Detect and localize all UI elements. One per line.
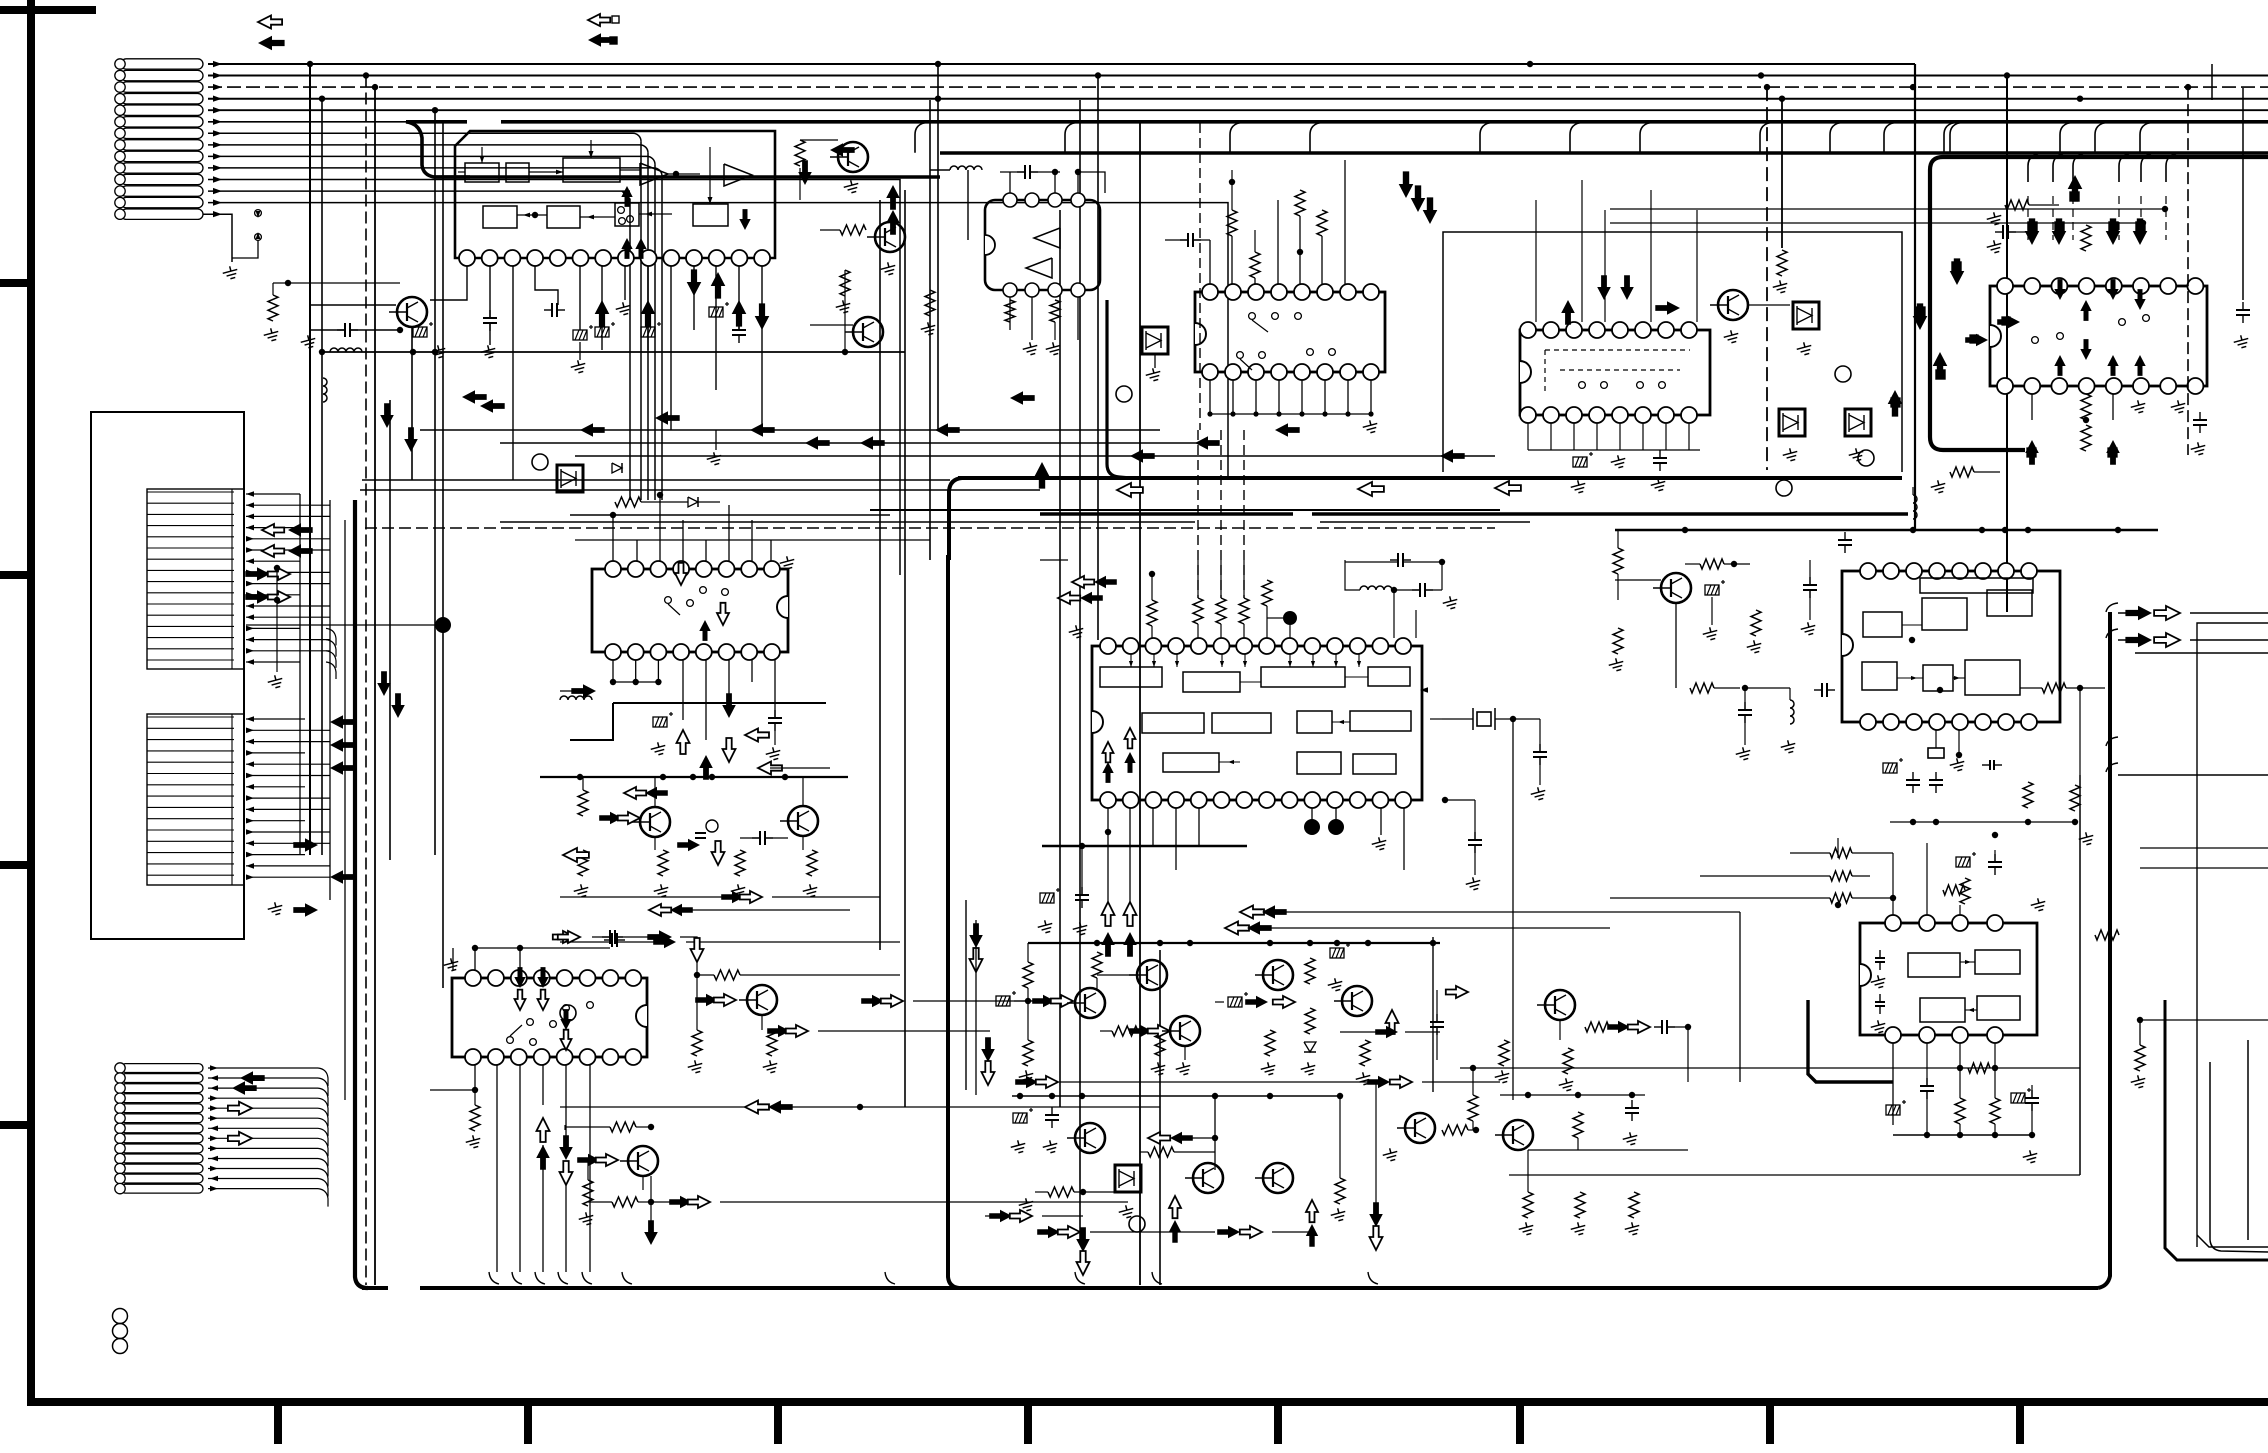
wire: [208, 155, 647, 157]
ground: [572, 883, 590, 899]
arrowhead: [1288, 661, 1292, 667]
arrowhead: [587, 215, 594, 220]
ground: [1607, 657, 1625, 673]
wire: [670, 266, 672, 430]
via: [706, 820, 718, 832]
signal arrow: [293, 903, 318, 917]
wire: [2079, 775, 2081, 1175]
junction: [577, 774, 583, 780]
wire: [1460, 1067, 2080, 1069]
wire: [2052, 196, 2054, 240]
wire: [1151, 626, 1153, 638]
bus curl: [1152, 1272, 1162, 1284]
junction: [2029, 1132, 2035, 1138]
wire: [246, 752, 305, 754]
cap C: [337, 329, 345, 331]
open arrow: [262, 524, 284, 536]
arrowhead: [246, 841, 254, 847]
diode D: [612, 463, 622, 473]
junction: [842, 349, 848, 355]
ecap: [1330, 943, 1350, 958]
wire: [1550, 423, 1552, 450]
junction: [1890, 895, 1896, 901]
wire: [560, 1106, 1160, 1108]
wire: [208, 1067, 318, 1069]
res R: [1943, 885, 1965, 895]
bus hook: [915, 123, 925, 153]
bus curl: [558, 1272, 568, 1284]
res R: [714, 970, 740, 980]
bus mid 522a: [500, 521, 1195, 523]
wire: [2139, 1020, 2141, 1045]
signal arrow: [1094, 576, 1117, 588]
tag sq: [2002, 317, 2010, 325]
U2 notch: [985, 235, 995, 255]
arrowhead: [210, 1085, 218, 1091]
wire: [1077, 172, 1079, 193]
wire: [1474, 800, 1476, 840]
blob: [1283, 611, 1297, 625]
ground: [1044, 341, 1062, 357]
res R: [1092, 952, 1102, 978]
wire: [570, 703, 613, 740]
pin row: [147, 840, 234, 842]
bus curve thick: [406, 122, 470, 177]
junction: [2077, 96, 2083, 102]
U12 block: [1261, 667, 1345, 687]
sheet corner tick top-left: [0, 6, 96, 14]
wire: [1054, 172, 1056, 193]
inner pin box2: [147, 714, 244, 885]
junction: [472, 945, 478, 951]
wire: [647, 266, 649, 350]
ecap: [413, 322, 433, 337]
pin arrowhead: [213, 188, 222, 194]
wire drop dashed: [365, 76, 367, 1286]
signal arrow: [1411, 185, 1426, 212]
arrowhead: [210, 1166, 218, 1172]
transistor Q4: [853, 317, 883, 347]
junction: [1212, 1093, 1218, 1099]
bus hook: [1944, 123, 1954, 153]
wire: [1912, 487, 1914, 495]
wire: [985, 1215, 1000, 1217]
wire bus6 thick2: [406, 120, 467, 124]
wire: [1220, 560, 1222, 598]
wire: [818, 1030, 990, 1032]
wire drop: [434, 110, 436, 855]
cap C: [1051, 1107, 1053, 1115]
tag sq: [1970, 335, 1978, 343]
wire: [208, 1127, 318, 1129]
open arrow: [1386, 1010, 1399, 1034]
small cap: [1982, 764, 1990, 766]
transistor Q8: [747, 985, 777, 1015]
wire: [2140, 1019, 2268, 1021]
wire: [1579, 1150, 1581, 1192]
wire: [697, 999, 706, 1001]
U14 block: [1863, 612, 1902, 637]
junction: [372, 84, 378, 90]
open arrow: [1370, 1226, 1383, 1250]
cap C: [1390, 559, 1398, 561]
wire: [452, 948, 454, 970]
ground: [686, 1059, 704, 1075]
signal arrow: [647, 930, 672, 944]
wire: [299, 494, 301, 855]
wire: [1852, 897, 1893, 899]
res R: [612, 1197, 638, 1207]
res R: [795, 140, 805, 166]
wire: [1074, 1191, 1115, 1193]
ic U1 pin: [686, 250, 702, 266]
border tick bottom: [774, 1402, 782, 1444]
open arrow: [786, 1025, 808, 1037]
row curl: [326, 640, 336, 657]
wire: [1403, 561, 1442, 563]
signal arrow: [1245, 996, 1268, 1008]
res R: [2135, 1045, 2145, 1071]
bus curl: [1075, 1272, 1085, 1284]
ground: [919, 321, 937, 337]
open arrow: [1169, 1196, 1181, 1218]
wire: [2031, 1085, 2033, 1098]
wire: [1436, 990, 1438, 1022]
cap C: [2199, 412, 2201, 420]
U5 switch: [1601, 382, 1608, 389]
wire: [696, 975, 698, 1030]
signal arrow: [1010, 391, 1035, 405]
wire: [1220, 624, 1222, 638]
wire: [1790, 852, 1830, 854]
U1 wire: [458, 171, 465, 173]
thick wire: [1808, 1000, 1893, 1082]
open arrow: [553, 931, 575, 943]
U12 wire: [1244, 654, 1246, 667]
signal arrow: [2133, 218, 2148, 245]
bus hook2: [2073, 154, 2083, 182]
pin row: [147, 716, 234, 718]
wire: [1687, 1027, 1689, 1050]
ecap: [1886, 1100, 1906, 1115]
res R: [1575, 1192, 1585, 1218]
open arrow: [1240, 906, 1264, 919]
wire dashed: [1243, 430, 1245, 598]
U12 wire: [1289, 654, 1291, 667]
transistor Q14: [1342, 986, 1372, 1016]
wire: [246, 627, 300, 629]
U1 wire: [481, 147, 483, 163]
wire spine: [937, 64, 939, 430]
signal arrow: [2052, 218, 2067, 245]
wire: [560, 941, 612, 943]
signal arrow: [330, 738, 355, 752]
res R: [268, 295, 278, 321]
res R: [610, 1122, 636, 1132]
ground: [1722, 329, 1740, 345]
wire spine dashed: [1766, 87, 1768, 470]
arrowhead: [1311, 661, 1315, 667]
U1 switch box: [615, 203, 639, 226]
signal arrow: [1170, 1132, 1193, 1144]
wire: [1974, 471, 2000, 473]
U1 inner block: [483, 206, 517, 228]
arrowhead: [246, 852, 254, 858]
via: [113, 1339, 128, 1354]
open arrow top-mid: [588, 14, 610, 26]
res R: [840, 270, 850, 296]
coil: [330, 348, 362, 352]
wire: [1014, 1000, 1042, 1002]
curve: [318, 1108, 328, 1126]
pin row: [147, 761, 234, 763]
wire: [1667, 1026, 1688, 1028]
curve: [2106, 737, 2118, 746]
wire bus6 thick3: [501, 120, 2268, 124]
junction: [432, 107, 438, 113]
signal arrow: [721, 891, 744, 903]
U1 solid arrow: [621, 238, 632, 259]
wire: [802, 836, 804, 850]
signal arrow: [404, 427, 418, 452]
ic U10: [592, 569, 788, 652]
res R: [2081, 425, 2091, 451]
pin row: [147, 558, 234, 560]
res R: [583, 1180, 593, 1206]
cap C: [489, 310, 491, 318]
wire: [2029, 204, 2059, 206]
wire: [246, 605, 330, 607]
cap C: [1081, 887, 1083, 895]
junction: [1957, 1132, 1963, 1138]
border tick bottom: [1274, 1402, 1282, 1444]
wire: [1278, 380, 1280, 414]
signal arrow: [1076, 1227, 1090, 1252]
wire: [2190, 612, 2268, 614]
wire: [1078, 172, 1105, 193]
ground: [2189, 441, 2207, 457]
pin arrowhead: [213, 142, 222, 148]
signal arrow: [595, 300, 610, 327]
res R: [1960, 878, 1970, 904]
wire: [1685, 563, 1700, 565]
pin arrowhead: [213, 61, 222, 67]
junction: [1187, 940, 1193, 946]
bus mid thick2: [958, 476, 1902, 480]
arrowhead: [256, 232, 261, 239]
wire: [1277, 200, 1279, 284]
wire: [682, 660, 684, 720]
res R: [1023, 1040, 1033, 1066]
wire: [2118, 639, 2140, 641]
wire: [1892, 1043, 1894, 1125]
arrowhead: [246, 536, 254, 542]
junction: [1910, 84, 1916, 90]
wire: [1852, 852, 1893, 854]
cap C: [1474, 832, 1476, 840]
junction: [1157, 940, 1163, 946]
junction: [610, 679, 616, 685]
border tick left: [0, 279, 29, 287]
U11 arrow: [537, 967, 548, 988]
connector CN1: [121, 59, 203, 69]
wire: [1266, 606, 1268, 638]
wire: [1267, 617, 1283, 619]
pin arrowhead: [213, 84, 222, 90]
junction: [2083, 417, 2089, 423]
wire: [474, 948, 476, 970]
wire: [1926, 1043, 1928, 1086]
wire: [1441, 562, 1443, 590]
pin row: [147, 625, 234, 627]
transistor Q5: [1718, 290, 1748, 320]
wire: [2009, 1040, 2011, 1050]
ground: [879, 261, 897, 277]
wire bus5: [208, 109, 2268, 111]
ground: [1948, 757, 1966, 773]
bus curl: [512, 1272, 522, 1284]
signal arrow: [798, 160, 812, 185]
wire: [1596, 423, 1598, 450]
wire: [1107, 808, 1109, 925]
wire spine: [1097, 76, 1099, 641]
signal arrow: [722, 693, 736, 718]
signal arrow: [2106, 440, 2120, 465]
res R: [1629, 1192, 1639, 1218]
open arrow: [758, 762, 782, 775]
ground: [2021, 1149, 2039, 1165]
wire: [1535, 200, 1537, 322]
open arrow: [262, 545, 284, 557]
row curl: [326, 651, 336, 668]
pin row: [147, 547, 234, 549]
ground: [2077, 831, 2095, 847]
ic U1 pin: [618, 250, 634, 266]
U5 dashes: [1544, 350, 1546, 395]
U3 switch: [1249, 313, 1256, 320]
U11 open arrow: [515, 990, 526, 1010]
wire: [1077, 297, 1079, 340]
junction: [1368, 411, 1373, 416]
U9 arrow: [1997, 316, 2020, 328]
wire: [650, 1176, 652, 1230]
wire: [1445, 799, 1475, 801]
res R: [1155, 1030, 1165, 1056]
U14 wire: [1897, 677, 1923, 679]
arrowhead: [210, 1116, 218, 1122]
wire: [1436, 1027, 1438, 1060]
wire: [1344, 160, 1346, 284]
cap C: [1631, 1100, 1633, 1108]
junction: [2140, 220, 2146, 226]
wire: [1081, 846, 1083, 895]
signal arrow: [861, 995, 884, 1007]
wire: [1324, 380, 1326, 414]
wire: [810, 324, 853, 326]
wire: [705, 540, 707, 561]
via: [1776, 480, 1792, 496]
ground: [1041, 1139, 1059, 1155]
signal arrow: [1032, 995, 1055, 1007]
wire: [1500, 1094, 1645, 1096]
ground: [1869, 1019, 1887, 1035]
pin arrowhead: [213, 153, 222, 159]
bus thick bottom b: [420, 1286, 2098, 1290]
ecap: [1573, 452, 1593, 467]
open arrow: [268, 568, 290, 580]
ground: [1370, 836, 1388, 852]
ground: [1117, 1204, 1135, 1220]
junction: [1149, 571, 1155, 577]
wire: [770, 767, 830, 769]
wire: [560, 896, 732, 898]
junction: [2002, 527, 2008, 533]
wire: [1232, 380, 1234, 414]
cap C: [1926, 1078, 1928, 1086]
U12 arrow: [1420, 687, 1428, 693]
wire: [774, 723, 776, 745]
ground: [1985, 239, 2003, 255]
res R: [1830, 893, 1852, 903]
wire bus4: [208, 98, 2268, 100]
wire bus3 dashed: [208, 86, 2268, 88]
wire: [344, 520, 346, 1100]
bus hook: [1570, 123, 1580, 153]
ground: [1354, 1071, 1372, 1087]
transistor Q20: [1545, 990, 1575, 1020]
arrowhead: [246, 716, 254, 722]
open arrow: [691, 938, 704, 962]
arrowhead: [210, 1105, 218, 1111]
wire: [615, 936, 658, 938]
wire: [208, 1147, 318, 1149]
wire: [1027, 988, 1029, 1040]
junction: [1764, 84, 1770, 90]
bus hook: [1640, 123, 1650, 153]
ground: [834, 299, 852, 315]
tag square: [610, 37, 617, 44]
wire: [1958, 730, 1960, 755]
signal arrow: [559, 1135, 573, 1160]
open arrow: [596, 1154, 618, 1166]
signal arrow: [462, 390, 487, 404]
U12 open arrow: [1103, 742, 1114, 762]
wire: [1995, 934, 2095, 936]
U15 wire: [1960, 961, 1975, 963]
junction: [1956, 752, 1962, 758]
arrowhead: [246, 874, 254, 880]
signal arrow: [989, 1210, 1012, 1222]
ic U5: [1520, 330, 1710, 415]
wire: [772, 1030, 778, 1032]
signal arrow: [245, 590, 270, 604]
pin row: [147, 874, 234, 876]
open arrow: [1072, 576, 1094, 588]
junction: [1230, 411, 1235, 416]
wire: [592, 936, 610, 938]
junction: [1910, 527, 1916, 533]
junction: [432, 349, 438, 355]
wire: [1472, 1121, 1474, 1130]
U2 opamp: [1026, 258, 1052, 278]
res R: [840, 225, 866, 235]
ecap: [1040, 888, 1060, 903]
junction: [610, 512, 616, 518]
wire: [246, 493, 300, 495]
ic U14: [1842, 571, 2060, 722]
ground: [842, 179, 860, 195]
U5 dashes: [1560, 369, 1680, 371]
